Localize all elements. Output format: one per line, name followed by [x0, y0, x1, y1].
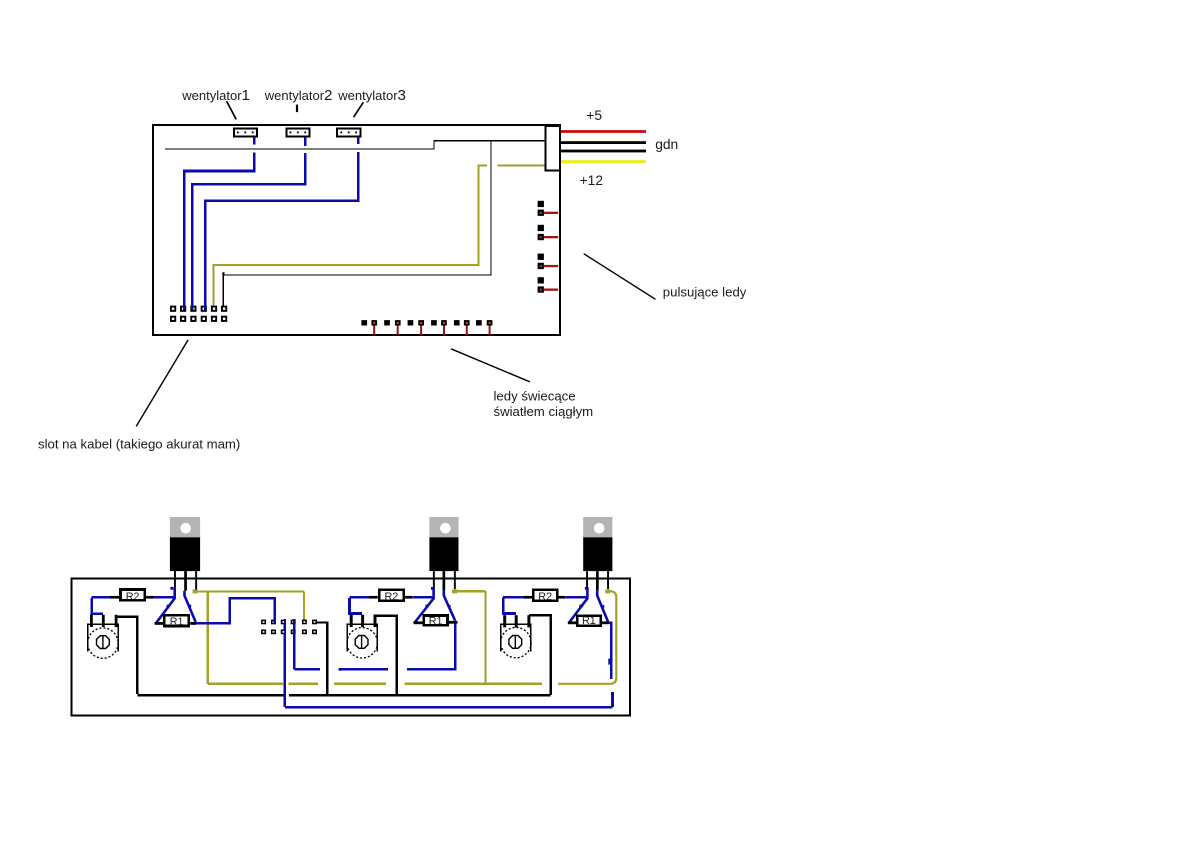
wire: blue bottom bus	[285, 620, 613, 707]
transistor Q3 hole	[594, 523, 605, 534]
svg-text:R2: R2	[538, 591, 552, 603]
wire: black ground run from inner trace to header pin 6	[222, 272, 224, 275]
resistor R1 (ch2)	[424, 616, 448, 626]
wire: black bottom bus	[137, 694, 550, 696]
wire: black header pin6 drop	[317, 622, 327, 694]
transistor Q1 body	[170, 537, 200, 571]
transistor Q2 tab	[429, 517, 458, 537]
pulsing LED column: 8 pads	[538, 201, 544, 293]
resistor R2 (ch3)	[533, 590, 557, 601]
molex power connector	[545, 126, 559, 170]
svg-text:R1: R1	[429, 616, 443, 628]
connector wentylator3	[337, 129, 360, 137]
wire: blue T1 funnel	[156, 587, 196, 623]
wire: blue R2b right lead to T2 base	[412, 596, 434, 599]
potentiometer P3 terminals	[503, 615, 506, 627]
svg-text:R2: R2	[126, 591, 140, 603]
transistor Q3 body	[583, 537, 612, 571]
wire: black pot2 drop	[374, 616, 397, 695]
resistor R1 (ch1)	[164, 615, 189, 626]
resistor R1 (ch1) terminals	[155, 622, 164, 625]
wire: blue R1a output to header pin2	[196, 598, 275, 623]
wire: blue R2a left lead	[92, 596, 110, 599]
wire: +5 red lead	[561, 130, 646, 133]
steady LED red cathode ticks	[373, 322, 490, 335]
olive solder blob T3	[605, 589, 610, 593]
resistor R2 (ch3) terminals	[524, 596, 532, 599]
wire: olive T3 collector curve	[558, 591, 616, 684]
wire: blue R2c left lead	[503, 596, 524, 599]
wire: blue fan3 run to header pin 4	[205, 152, 358, 309]
svg-text:R2: R2	[384, 591, 398, 603]
svg-text:światłem ciągłym: światłem ciągłym	[494, 404, 594, 419]
potentiometer P2 dashed ring	[347, 628, 377, 658]
wire: blue R1b output to mid bus	[294, 621, 455, 669]
potentiometer P1 body	[88, 624, 118, 651]
potentiometer P1 terminals	[90, 615, 93, 627]
pointer to wentylator2	[296, 105, 298, 113]
wire: +12 yellow lead	[561, 160, 646, 163]
transistor Q3 legs	[586, 571, 588, 588]
potentiometer P2 screw	[355, 636, 368, 649]
transistor Q2 legs	[433, 571, 435, 588]
svg-text:slot na kabel (takiego akurat: slot na kabel (takiego akurat mam)	[38, 436, 240, 451]
transistor Q1 tab	[170, 517, 200, 537]
pointer to wentylator3	[354, 102, 364, 117]
wire: blue R2b left lead	[350, 596, 370, 599]
wire: olive T1 collector run	[196, 592, 305, 684]
svg-text:wentylator2: wentylator2	[264, 87, 333, 104]
svg-text:ledy świecące: ledy świecące	[494, 389, 576, 404]
wire: olive T2 collector run	[455, 591, 486, 684]
cable slot header 6x2 pads	[170, 305, 227, 322]
wire tails into mid header pads	[275, 619, 295, 635]
wire tails into header pads	[184, 305, 205, 310]
transistor Q2 body	[429, 537, 458, 571]
resistor R2 (ch2)	[379, 590, 404, 601]
resistor R1 (ch3) terminals	[568, 621, 576, 624]
connector wentylator1	[234, 129, 257, 137]
wire: blue R1c output drop	[609, 623, 611, 679]
board outline (controller PCB)	[153, 125, 560, 335]
board outline (driver PCB)	[71, 579, 630, 716]
wire: olive segment right of black crossing	[498, 165, 545, 167]
mid header 6x2 pads	[261, 619, 317, 635]
wire: blue R2a right lead to T1 base	[153, 596, 175, 599]
wire: blue pot3 wiper link	[503, 598, 516, 614]
wire: blue fan1 run to header pin 2	[184, 153, 254, 310]
wire: blue pot1 wiper link	[92, 598, 104, 614]
pointer to cable slot	[136, 340, 188, 427]
wire: blue T2 funnel	[414, 587, 455, 623]
pointer to pulsing leds	[584, 254, 656, 300]
transistor Q1 legs	[174, 571, 176, 587]
wire: ground black lead 2	[561, 150, 646, 153]
wire: blue T3 funnel	[569, 587, 609, 623]
potentiometer P3 body	[501, 624, 531, 651]
wire: ground black lead 1	[561, 141, 646, 144]
svg-text:wentylator1: wentylator1	[181, 87, 250, 104]
olive solder blob T1	[193, 589, 198, 593]
svg-text:pulsujące ledy: pulsujące ledy	[663, 284, 747, 299]
wire: black pot1 to bottom bus	[116, 617, 137, 694]
wire: olive +12 sense from molex to header pin 5 (left part)	[214, 166, 488, 310]
svg-text:R1: R1	[170, 616, 184, 628]
svg-text:R1: R1	[582, 615, 596, 627]
pointer to steady leds	[451, 349, 530, 382]
svg-text:gdn: gdn	[655, 137, 678, 152]
olive solder blob T2	[452, 589, 457, 593]
wire: blue fan2 stub below connector	[304, 138, 307, 147]
resistor R2 (ch1) terminals	[110, 596, 119, 599]
wire: black pot3 drop	[529, 615, 551, 695]
wire: blue fan3 stub below connector	[357, 138, 360, 144]
connector wentylator2	[286, 129, 309, 137]
transistor Q2 hole	[440, 523, 451, 534]
potentiometer P2 body	[347, 624, 377, 651]
wire: olive bottom bus segments	[208, 683, 542, 685]
steady LED row: 12 pads	[361, 320, 492, 325]
pulsing LED red leads	[540, 212, 558, 291]
transistor Q1 hole	[180, 523, 191, 534]
resistor R1 (ch3)	[577, 616, 600, 626]
potentiometer P3 screw	[509, 636, 522, 649]
wire: blue pot2 wiper link	[350, 598, 363, 614]
potentiometer P3 dashed ring	[501, 627, 531, 657]
potentiometer P2 terminals	[350, 615, 353, 627]
svg-text:+5: +5	[586, 108, 602, 123]
resistor R2 (ch2) terminals	[370, 596, 378, 599]
transistor Q3 tab	[583, 517, 612, 537]
potentiometer P1 screw	[97, 636, 110, 649]
wire: inner supply trace (black, stepped)	[165, 141, 545, 149]
svg-text:wentylator3: wentylator3	[337, 87, 406, 104]
wire: blue fan2 run to header pin 3	[192, 153, 305, 309]
svg-text:+12: +12	[580, 173, 603, 188]
potentiometer P1 dashed ring	[88, 628, 118, 658]
pointer to wentylator1	[227, 101, 237, 119]
wire: blue R2c right lead to T3 base	[565, 596, 587, 599]
resistor R1 (ch2) terminals	[414, 621, 423, 624]
resistor R2 (ch1)	[121, 590, 145, 601]
wire: blue fan1 stub below connector	[253, 138, 256, 145]
